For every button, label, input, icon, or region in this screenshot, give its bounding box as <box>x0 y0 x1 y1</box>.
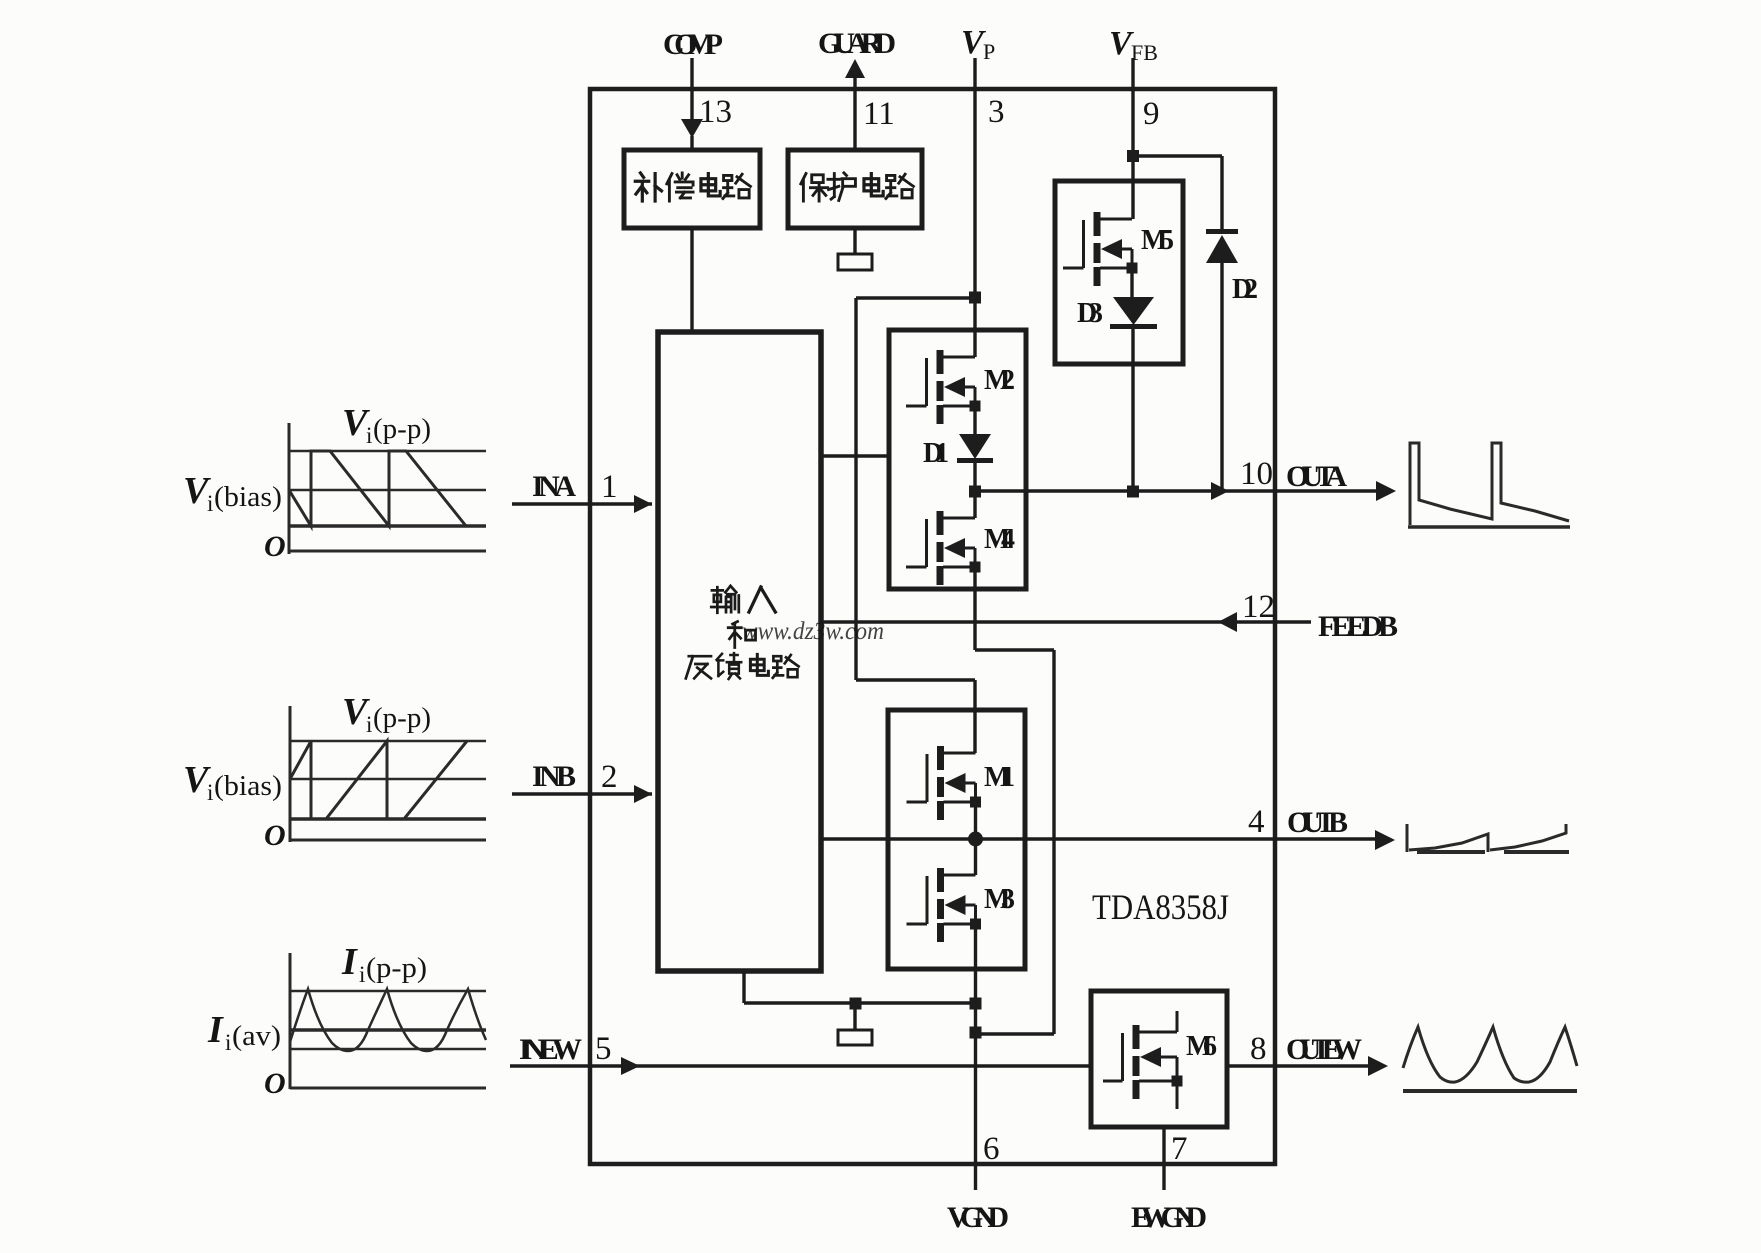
svg-text:i: i <box>207 780 213 805</box>
svg-text:(bias): (bias) <box>214 482 282 513</box>
svg-text:1: 1 <box>601 469 618 505</box>
svg-text:6: 6 <box>983 1131 1000 1167</box>
svg-text:O: O <box>264 530 286 563</box>
svg-text:D3: D3 <box>1077 298 1103 329</box>
svg-text:M5: M5 <box>1141 225 1174 256</box>
svg-text:www.dz3w.com: www.dz3w.com <box>742 618 884 645</box>
svg-text:10: 10 <box>1240 456 1273 492</box>
svg-text:4: 4 <box>1248 804 1265 840</box>
svg-text:OUTEW: OUTEW <box>1286 1033 1362 1066</box>
svg-text:FEEDB: FEEDB <box>1318 610 1398 643</box>
svg-text:INA: INA <box>532 470 576 503</box>
svg-text:5: 5 <box>595 1031 612 1067</box>
svg-text:P: P <box>983 39 995 64</box>
svg-text:D1: D1 <box>923 438 949 469</box>
svg-text:M2: M2 <box>984 365 1015 396</box>
svg-text:FB: FB <box>1131 40 1158 65</box>
svg-text:OUTA: OUTA <box>1286 460 1347 493</box>
svg-text:i: i <box>207 491 213 516</box>
svg-text:O: O <box>264 819 286 852</box>
svg-text:TDA8358J: TDA8358J <box>1092 887 1229 927</box>
svg-text:(p-p): (p-p) <box>373 703 431 734</box>
svg-text:I: I <box>207 1009 224 1051</box>
svg-text:12: 12 <box>1242 589 1275 625</box>
svg-text:7: 7 <box>1171 1131 1188 1167</box>
svg-text:i: i <box>366 712 372 737</box>
svg-text:(p-p): (p-p) <box>373 414 431 445</box>
svg-text:EWGND: EWGND <box>1131 1201 1207 1234</box>
svg-text:COMP: COMP <box>663 28 723 61</box>
svg-text:(av): (av) <box>232 1021 281 1052</box>
svg-text:(p-p): (p-p) <box>366 953 427 984</box>
svg-text:OUTB: OUTB <box>1287 806 1348 839</box>
svg-text:I: I <box>341 941 358 983</box>
svg-text:VGND: VGND <box>947 1201 1009 1234</box>
svg-text:O: O <box>264 1067 286 1100</box>
svg-text:11: 11 <box>863 96 895 132</box>
svg-text:i: i <box>359 962 365 987</box>
svg-text:3: 3 <box>988 94 1005 130</box>
svg-text:i: i <box>366 423 372 448</box>
svg-text:M1: M1 <box>984 762 1015 793</box>
svg-text:(bias): (bias) <box>214 771 282 802</box>
svg-text:9: 9 <box>1143 96 1160 132</box>
svg-text:INB: INB <box>532 760 576 793</box>
svg-text:M3: M3 <box>984 884 1015 915</box>
svg-text:INEW: INEW <box>519 1033 582 1066</box>
svg-text:D2: D2 <box>1232 274 1258 305</box>
svg-text:M6: M6 <box>1186 1031 1217 1062</box>
svg-text:M4: M4 <box>984 524 1015 555</box>
svg-text:i: i <box>225 1030 231 1055</box>
svg-text:13: 13 <box>699 94 732 130</box>
svg-text:8: 8 <box>1250 1031 1267 1067</box>
svg-text:2: 2 <box>601 759 618 795</box>
svg-text:GUARD: GUARD <box>818 27 896 60</box>
